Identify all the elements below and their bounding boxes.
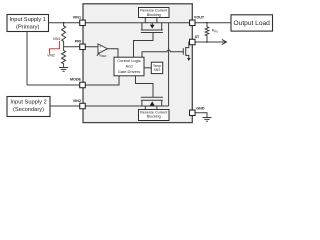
- svg-text:Input Supply 1: Input Supply 1: [10, 17, 46, 23]
- wire control logic to temp sense: [144, 67, 151, 69]
- resistor R1 (top of PRI divider): [62, 23, 66, 47]
- wire PRI (divider node to PRI pin to comparator input): [64, 46, 98, 48]
- resistor RPU pull-up on ST: [205, 23, 209, 42]
- pin PRI: [80, 44, 86, 50]
- svg-text:And: And: [125, 63, 132, 68]
- wire VOUT link (FET outputs common vertical to VOUT rail): [168, 23, 170, 106]
- wire VIN1 rail (supply1 to VIN1 pin, through FET1 to VOUT pin and Output Load): [49, 22, 232, 24]
- transistor Q2 pass FET (VIN2 path): [141, 97, 163, 109]
- svg-text:SNS: SNS: [154, 68, 162, 72]
- IC U1 body: [83, 4, 192, 123]
- svg-text:VIN2: VIN2: [73, 99, 81, 103]
- wire ST output with signal arrow: [192, 41, 226, 43]
- transistor Q1 pass FET (VIN1 path): [141, 18, 163, 33]
- wire GND pin to ground: [192, 113, 207, 118]
- Input Supply 1 (Primary) source box: [7, 15, 49, 32]
- node RPU top junction: [206, 22, 208, 24]
- wire Q1 gate to control logic: [134, 33, 154, 58]
- ground (GND pin): [203, 118, 212, 122]
- wire comparator output to control logic: [107, 49, 118, 58]
- svg-text:Blocking: Blocking: [147, 115, 161, 119]
- transistor Q3 status open-drain FET: [183, 42, 190, 61]
- Input Supply 2 (Secondary) source box: [7, 97, 50, 117]
- red annotation wire (alternate divider connection): [50, 41, 60, 54]
- wire VIN2 (supply2 to VIN2 pin and FET2 bottom rail): [50, 105, 169, 107]
- svg-text:PU: PU: [214, 29, 218, 33]
- svg-text:Gate Drivers: Gate Drivers: [118, 69, 140, 74]
- node divider tap on VIN1 rail: [63, 22, 65, 24]
- svg-text:VIN1: VIN1: [53, 37, 61, 41]
- svg-text:Control Logic: Control Logic: [117, 58, 141, 63]
- svg-text:Input Supply 2: Input Supply 2: [10, 100, 46, 106]
- svg-text:ST: ST: [195, 35, 200, 39]
- control logic U2: [114, 57, 144, 76]
- svg-text:VIN1: VIN1: [73, 15, 81, 19]
- svg-text:(Secondary): (Secondary): [13, 107, 44, 113]
- svg-text:VIN2: VIN2: [47, 53, 55, 57]
- reverse current blocking block 2: [139, 110, 170, 121]
- pin VIN2: [80, 103, 86, 109]
- pin GND: [190, 110, 196, 116]
- svg-text:(Primary): (Primary): [16, 24, 39, 30]
- ground (divider): [59, 68, 68, 72]
- node VREF stub: [97, 52, 100, 56]
- resistor R2 (bottom of PRI divider): [62, 47, 66, 67]
- reverse current blocking block 1: [139, 8, 170, 18]
- Output Load box: [231, 15, 273, 31]
- svg-text:Output Load: Output Load: [234, 20, 271, 27]
- wire MODE strap from Input Supply 1 down to MODE pin and into control logic: [27, 32, 119, 86]
- svg-text:MODE: MODE: [70, 77, 82, 81]
- svg-text:REF: REF: [101, 54, 107, 58]
- temp sense block: [151, 62, 162, 73]
- op-amp comparator (PRI vs VREF): [98, 44, 107, 54]
- svg-text:Blocking: Blocking: [147, 13, 161, 17]
- wire Q2 gate from control logic: [136, 76, 154, 97]
- pin MODE: [80, 82, 86, 88]
- pin VOUT: [190, 20, 196, 26]
- pin VIN1: [80, 20, 86, 26]
- pin ST: [190, 39, 196, 45]
- svg-text:VOUT: VOUT: [194, 16, 205, 20]
- svg-text:GND: GND: [196, 106, 205, 110]
- svg-text:PRI: PRI: [75, 40, 81, 44]
- wire ST gate (control logic to status FET, hop over VOUT link): [142, 50, 183, 57]
- node RPU bottom junction: [206, 41, 208, 43]
